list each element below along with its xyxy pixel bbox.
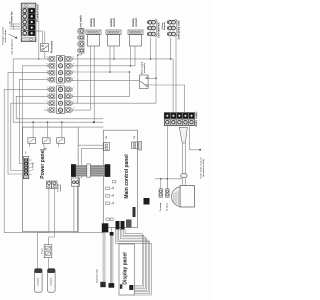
svg-text:Mains supply: Mains supply — [196, 111, 198, 126]
svg-text:Keyboard cable: Keyboard cable — [96, 269, 98, 283]
svg-text:Terminal connect: Terminal connect — [2, 27, 5, 45]
svg-text:diagram: diagram — [164, 22, 166, 30]
svg-text:L N PE: L N PE — [33, 162, 35, 169]
svg-text:element: element — [113, 18, 116, 27]
svg-text:actuator: actuator — [36, 277, 39, 285]
svg-text:Power panel: Power panel — [40, 149, 46, 179]
svg-text:Level switch: Level switch — [79, 15, 82, 29]
svg-text:Main control panel: Main control panel — [124, 154, 130, 199]
svg-text:the machine body: the machine body — [202, 158, 205, 177]
svg-text:Heating: Heating — [90, 18, 93, 27]
svg-text:actuator: actuator — [49, 277, 52, 285]
svg-text:Pressostat: Pressostat — [51, 41, 54, 53]
svg-text:Terminal block: Terminal block — [36, 3, 39, 20]
svg-text:element: element — [135, 18, 138, 27]
svg-text:CN2: CN2 — [134, 136, 136, 139]
svg-text:To valve: To valve — [166, 202, 168, 211]
svg-text:Heating: Heating — [132, 18, 135, 27]
svg-text:Drain pump conn: Drain pump conn — [177, 20, 180, 39]
svg-text:To pump: To pump — [160, 202, 162, 211]
svg-text:to the mains: to the mains — [4, 29, 7, 42]
svg-text:min. 3x1,5mm2: min. 3x1,5mm2 — [12, 39, 14, 55]
svg-text:assembly: assembly — [144, 62, 146, 73]
svg-text:Fuses: Fuses — [42, 248, 44, 253]
svg-text:element: element — [93, 18, 96, 27]
svg-text:Heating: Heating — [110, 18, 113, 27]
svg-text:control: control — [59, 184, 62, 192]
svg-text:Door interlock: Door interlock — [157, 22, 160, 38]
svg-text:CN3: CN3 — [106, 136, 108, 139]
svg-text:Door switch: Door switch — [141, 61, 144, 74]
svg-text:Power line: Power line — [11, 11, 14, 23]
svg-text:Display panel: Display panel — [123, 252, 129, 285]
